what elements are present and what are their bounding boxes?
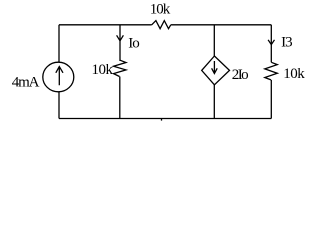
current arrow Io — [117, 35, 124, 41]
svg-text:Io: Io — [128, 35, 139, 51]
current source I1 arrow — [56, 67, 63, 86]
wire Io branch lower — [119, 77, 121, 119]
wire dependent source branch lower — [213, 85, 215, 119]
dependent source arrow — [212, 61, 218, 74]
wire top right segment — [171, 24, 271, 26]
svg-text:10k: 10k — [150, 1, 171, 17]
resistor R1 10k (left vertical) — [114, 60, 127, 76]
svg-text:4mA: 4mA — [12, 74, 40, 90]
wire top left segment — [59, 24, 152, 26]
dependent current source 2Io diamond — [202, 56, 230, 85]
current source I1 4mA circle — [43, 62, 74, 92]
resistor R3 10k (right vertical) — [265, 62, 278, 80]
svg-text:I3: I3 — [281, 35, 292, 51]
wire left vertical lower — [58, 92, 60, 119]
wire bottom — [59, 118, 271, 120]
wire dependent source branch upper — [213, 25, 215, 56]
current arrow I3 — [268, 40, 274, 45]
svg-text:10k: 10k — [283, 66, 305, 82]
svg-text:2Io: 2Io — [232, 67, 248, 83]
wire left vertical upper — [58, 25, 60, 63]
resistor R2 10k (top horizontal) — [152, 21, 171, 29]
wire right vertical upper — [270, 25, 272, 63]
junction tick bottom — [161, 119, 163, 121]
wire right vertical lower — [270, 80, 272, 119]
svg-text:10k: 10k — [92, 62, 114, 78]
wire Io branch upper — [119, 25, 121, 61]
